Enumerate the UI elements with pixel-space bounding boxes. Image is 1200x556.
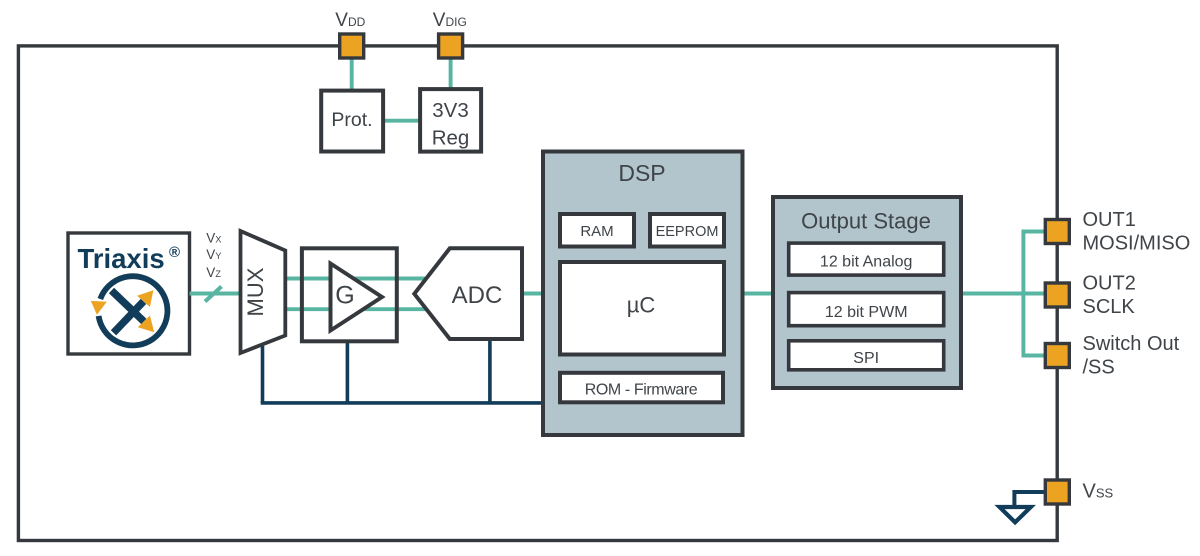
svg-text:MOSI/MISO: MOSI/MISO — [1083, 233, 1191, 255]
svg-text:Prot.: Prot. — [331, 109, 372, 131]
svg-text:DSP: DSP — [618, 160, 665, 186]
svg-text:VX: VX — [206, 231, 221, 246]
svg-text:SCLK: SCLK — [1083, 296, 1136, 318]
svg-text:MUX: MUX — [243, 267, 268, 316]
svg-text:/SS: /SS — [1083, 357, 1115, 379]
svg-text:VDD: VDD — [335, 10, 365, 31]
svg-text:VDIG: VDIG — [433, 10, 467, 31]
svg-text:VZ: VZ — [206, 265, 221, 280]
svg-text:VY: VY — [206, 247, 221, 262]
svg-text:OUT1: OUT1 — [1083, 209, 1136, 231]
svg-text:ADC: ADC — [452, 282, 503, 309]
svg-text:VSS: VSS — [1083, 481, 1114, 503]
svg-text:12 bit Analog: 12 bit Analog — [820, 254, 913, 271]
svg-text:µC: µC — [627, 293, 656, 318]
svg-text:OUT2: OUT2 — [1083, 273, 1136, 295]
svg-text:®: ® — [169, 244, 180, 261]
svg-text:SPI: SPI — [853, 350, 879, 367]
svg-text:Triaxis: Triaxis — [78, 243, 165, 274]
svg-text:ROM - Firmware: ROM - Firmware — [585, 382, 698, 399]
svg-text:12 bit PWM: 12 bit PWM — [825, 304, 908, 321]
svg-text:3V3: 3V3 — [432, 99, 468, 122]
svg-text:G: G — [335, 282, 354, 310]
svg-text:Reg: Reg — [432, 127, 470, 150]
svg-text:Output Stage: Output Stage — [801, 209, 931, 234]
svg-text:Switch Out: Switch Out — [1083, 333, 1180, 355]
svg-text:EEPROM: EEPROM — [656, 224, 719, 240]
svg-text:RAM: RAM — [580, 223, 613, 240]
